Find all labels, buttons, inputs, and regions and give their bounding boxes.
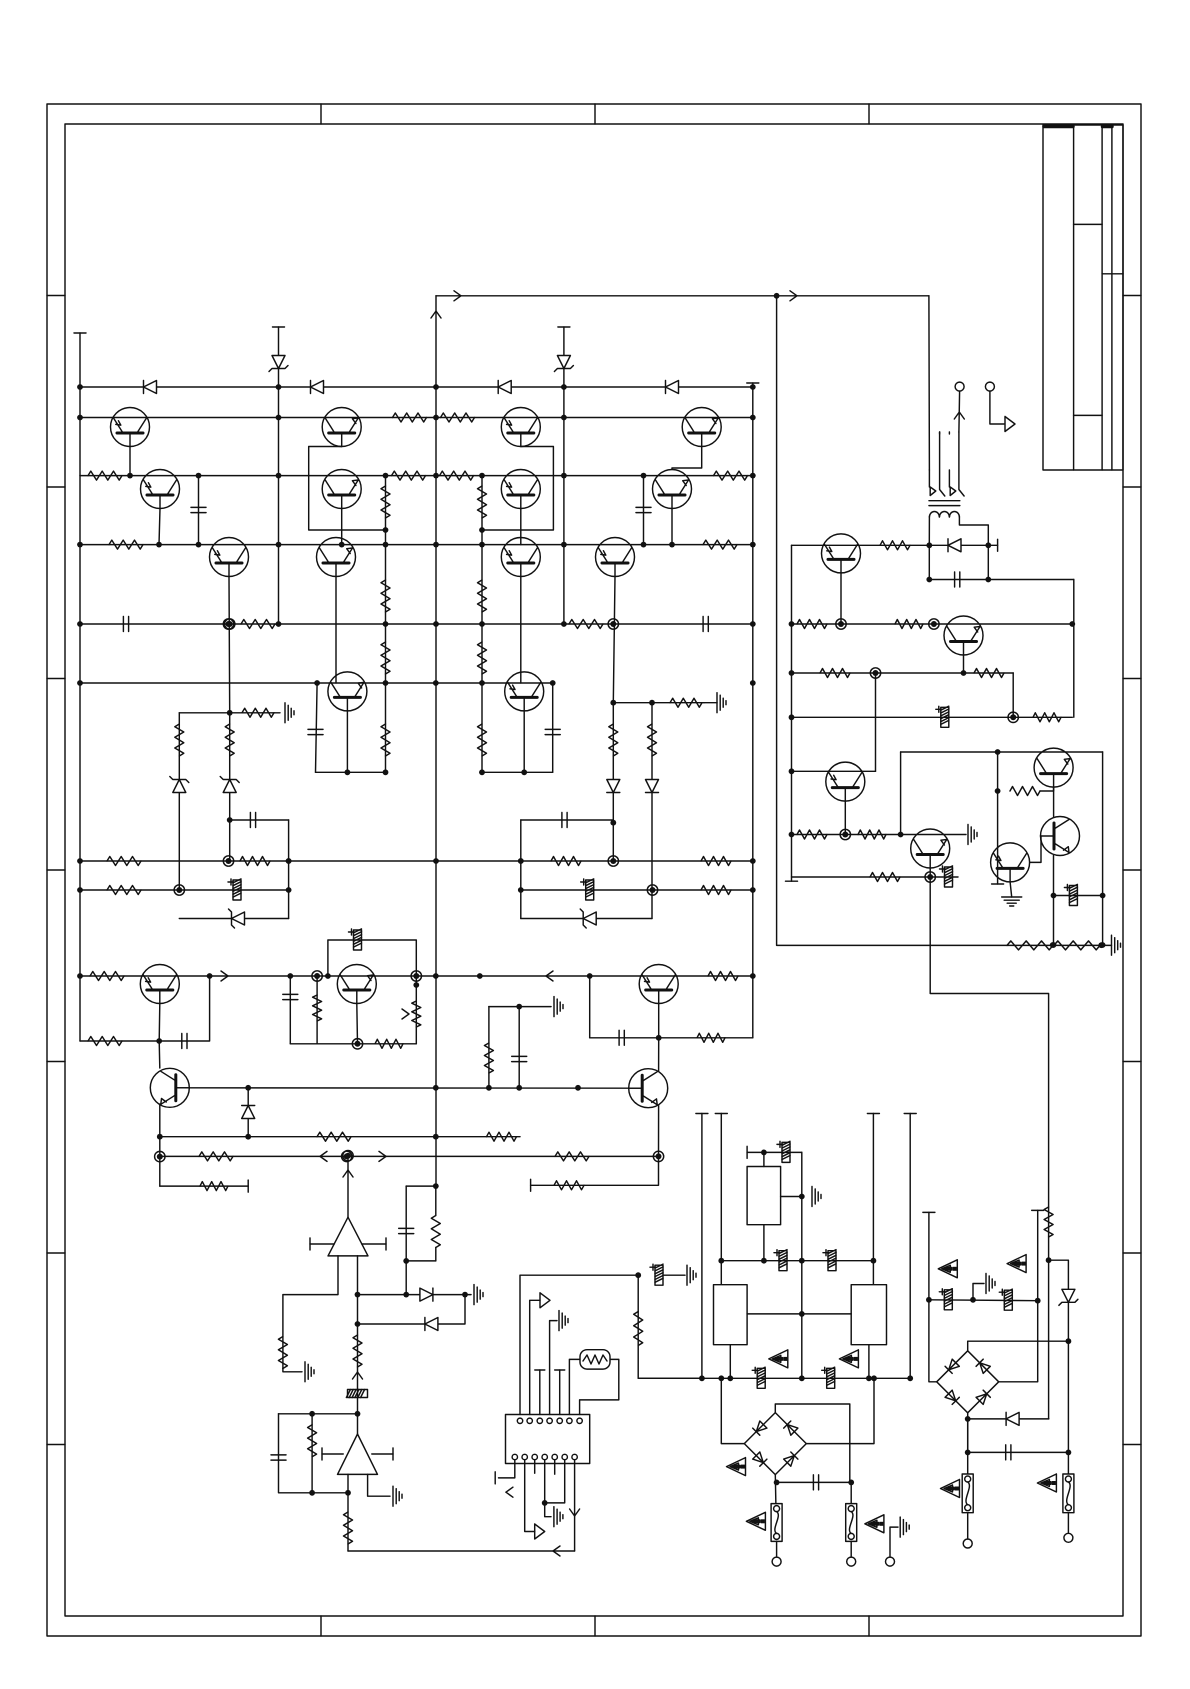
transistor Q25	[991, 843, 1030, 882]
junction	[848, 1480, 854, 1486]
node	[155, 1151, 165, 1161]
fuse F4	[1063, 1474, 1074, 1513]
wire prot rail	[791, 545, 793, 881]
wire Q2 emitter	[159, 509, 160, 545]
wire row 673 prot	[792, 672, 1014, 674]
wire opamp1 outR	[357, 1256, 359, 1324]
wire Q25 base feed	[997, 791, 999, 884]
wire opamp1 in	[347, 1156, 349, 1218]
wire Q19 top	[658, 1038, 660, 1071]
resistor R61	[858, 830, 886, 839]
junction	[750, 473, 756, 479]
junction	[799, 1258, 805, 1264]
resistor R30	[701, 857, 731, 866]
junction	[561, 415, 567, 421]
wire gnd stub R	[704, 702, 717, 704]
diode D4	[666, 381, 679, 394]
zener D7	[229, 909, 245, 928]
border zone tick top	[320, 104, 322, 124]
wire capbranch R	[520, 820, 522, 919]
border zone tick top	[868, 104, 870, 124]
junction	[433, 1085, 439, 1091]
junction	[77, 542, 83, 548]
resistor R49	[431, 1216, 440, 1248]
tbar prot rail end	[786, 880, 798, 882]
capacitor C4	[250, 813, 255, 828]
title block bold top b	[1103, 125, 1113, 129]
IC U3 body	[506, 1415, 590, 1464]
junction	[518, 887, 524, 893]
junction	[383, 473, 389, 479]
wire zrow R	[521, 918, 652, 920]
tbar inL2	[321, 1448, 323, 1460]
wire pin5b	[554, 1460, 556, 1474]
wire chain left	[385, 476, 387, 773]
wire bias R2	[651, 703, 653, 919]
wire Q5 down	[341, 509, 343, 545]
junction	[561, 384, 567, 390]
wire rail stub b	[435, 1248, 437, 1261]
zener mark Z4	[746, 1512, 765, 1530]
arrow opamp1	[343, 1170, 353, 1177]
junction	[774, 1480, 780, 1486]
resistor R24	[225, 724, 234, 756]
junction	[1066, 1450, 1072, 1456]
ground G2	[717, 693, 726, 713]
arrow pin7b	[570, 1509, 580, 1516]
tbar U4	[746, 1146, 748, 1158]
junction	[383, 542, 389, 548]
junction	[866, 1375, 872, 1381]
resistor R15	[381, 642, 390, 674]
border zone tick left	[47, 1061, 65, 1063]
wire gnd row R ext	[652, 702, 704, 704]
wire D16 drop	[987, 545, 989, 579]
wire protect feed	[930, 877, 1048, 1419]
wire row 890 R	[521, 889, 753, 891]
capacitor C12	[512, 1056, 527, 1061]
title block bold top a	[1044, 125, 1073, 129]
transistor Q20	[822, 534, 861, 573]
node	[225, 619, 235, 629]
junction	[750, 542, 756, 548]
resistor R50	[308, 1425, 317, 1457]
junction	[518, 858, 524, 864]
resistor R14	[381, 580, 390, 612]
border zone tick right	[1123, 678, 1141, 680]
transistor Q11	[596, 538, 635, 577]
tbar inR2	[392, 1448, 394, 1460]
resistor R26	[648, 724, 657, 756]
wire pin4b	[544, 1460, 546, 1503]
zener D6	[220, 777, 239, 793]
arrow trimmer	[402, 1009, 409, 1019]
wire row 772 R	[480, 771, 553, 773]
junction	[799, 1375, 805, 1381]
wire cap row BR1	[777, 1481, 852, 1483]
wire gnd row L	[179, 712, 280, 714]
zener mark Z1	[769, 1350, 788, 1368]
wire xfmr left lead	[928, 517, 930, 545]
ecap C8	[349, 929, 362, 950]
node	[925, 872, 935, 882]
wire cap row L	[230, 819, 289, 821]
wire gnd stub d	[465, 1294, 471, 1296]
arrow 1156b	[379, 1151, 386, 1161]
resistor R8	[714, 471, 748, 480]
junction	[345, 769, 351, 775]
transistor Q19	[629, 1069, 668, 1108]
resistor R59	[1033, 713, 1061, 722]
tbar V4	[904, 1113, 916, 1115]
zener D-ZL	[269, 356, 288, 372]
diode D2	[311, 381, 324, 394]
wire row 476	[80, 475, 753, 477]
ecap C31	[1064, 884, 1077, 905]
zener mark Z7	[1007, 1255, 1026, 1273]
node	[608, 856, 618, 866]
wire E res	[997, 752, 999, 791]
wire capV R	[552, 683, 554, 772]
ground G3	[554, 997, 563, 1017]
junction	[1069, 621, 1075, 627]
tbar prot	[997, 539, 999, 551]
resistor R48	[353, 1335, 362, 1367]
wire cap row R	[521, 819, 614, 821]
resistor R36 trimmer	[412, 1001, 421, 1027]
wire row 1261	[721, 1260, 873, 1262]
wire zener branch	[1049, 1260, 1069, 1341]
wire row 624	[80, 623, 753, 625]
resistor R19	[478, 642, 487, 674]
wire left rail	[79, 333, 81, 1041]
wire BR1 bottom	[775, 1475, 776, 1542]
capacitor C2	[191, 507, 206, 512]
wire BR1 left	[721, 1378, 744, 1443]
wire fb chain	[357, 1324, 359, 1414]
transistor Q12	[682, 408, 721, 447]
wire switch lead B	[939, 432, 941, 434]
wire U4 topline	[747, 1151, 802, 1153]
wire pin5	[559, 1370, 561, 1415]
wire rc bottom	[406, 1260, 436, 1262]
resistor R62	[870, 873, 900, 882]
ecap C6	[228, 879, 241, 900]
junction	[699, 1375, 705, 1381]
capacitor C22	[813, 1475, 818, 1490]
junction	[433, 415, 439, 421]
junction	[207, 973, 213, 979]
wire AC2 lead	[990, 391, 1004, 424]
resistor R38	[88, 1037, 122, 1046]
wire v312	[311, 1414, 313, 1493]
wire cap row prot	[929, 579, 1074, 581]
border zone tick left	[47, 1252, 65, 1254]
wire row 772 L	[316, 771, 386, 773]
resistor R37	[375, 1039, 403, 1048]
tbar inR	[385, 1238, 387, 1250]
junction	[641, 542, 647, 548]
junction	[479, 542, 485, 548]
wire Q13 down	[671, 509, 673, 545]
junction	[649, 700, 655, 706]
wire Q10 emitter	[520, 577, 522, 684]
title block divider h3	[1102, 273, 1123, 275]
wire cap stub BR2	[967, 1419, 969, 1453]
resistor R9	[109, 540, 143, 549]
wire U4 gnd	[781, 1196, 802, 1198]
resistor R11	[241, 620, 275, 629]
resistor R54	[880, 541, 910, 550]
junction	[286, 858, 292, 864]
junction	[799, 1194, 805, 1200]
junction	[750, 415, 756, 421]
wire stub 1185R	[531, 1156, 659, 1185]
junction	[355, 1292, 361, 1298]
title block divider h1	[1074, 223, 1103, 225]
wire stub 1186L	[160, 1185, 248, 1187]
lamp filament	[583, 1355, 607, 1364]
resistor R25	[609, 724, 618, 756]
junction	[77, 887, 83, 893]
wire ecap gnd	[663, 1274, 685, 1276]
wire v1068 down	[1067, 1341, 1069, 1474]
transistor Q3	[210, 538, 249, 577]
tbar q25	[992, 883, 1004, 885]
junction	[479, 473, 485, 479]
junction	[345, 1490, 351, 1496]
node	[836, 619, 846, 629]
transformer T-core	[929, 500, 960, 502]
border zone tick left	[47, 1444, 65, 1446]
junction	[750, 384, 756, 390]
wire row 1300	[929, 1299, 1038, 1302]
junction	[433, 384, 439, 390]
junction	[433, 1183, 439, 1189]
wire opamp2 gnd	[368, 1474, 390, 1496]
junction	[641, 473, 647, 479]
title block divider col2	[1101, 125, 1103, 470]
wire Q6 emitter	[335, 577, 337, 684]
wire cap row ps	[968, 1451, 1069, 1453]
junction	[383, 621, 389, 627]
arrow AC1	[954, 412, 964, 419]
ground snub	[1112, 935, 1121, 955]
wire Q25-Q26 link	[1030, 836, 1041, 862]
wire corner 673	[1012, 673, 1014, 717]
junction	[383, 527, 389, 533]
junction	[196, 473, 202, 479]
transistor Q13	[653, 470, 692, 509]
terminal bar zener R	[558, 326, 570, 328]
transistor Q1	[111, 408, 150, 447]
wire right rail	[752, 383, 754, 1038]
wire v1073	[1073, 580, 1075, 718]
ground G6	[393, 1486, 402, 1506]
sheet border inner	[65, 124, 1123, 1616]
junction	[314, 680, 320, 686]
wire Q12-Q13 link	[672, 447, 702, 470]
arrow right top rail 2	[790, 291, 797, 301]
resistor R53	[1044, 1207, 1053, 1237]
wire row 717 prot	[792, 716, 1073, 718]
resistor R42	[487, 1132, 517, 1141]
zener mark Z6	[938, 1260, 957, 1278]
junction	[561, 542, 567, 548]
wire zrow L	[179, 918, 288, 920]
tbar pin5	[555, 1369, 565, 1371]
wire row 1087	[177, 1087, 642, 1089]
wire BR1 right	[806, 1378, 874, 1443]
diode D11	[242, 1106, 255, 1119]
junction	[718, 1375, 724, 1381]
fuse F2	[846, 1504, 857, 1542]
resistor R20	[478, 724, 487, 756]
zener D10	[580, 909, 596, 928]
wire U5 bottom	[729, 1345, 731, 1379]
ecap C30	[940, 866, 953, 887]
border zone tick bottom	[868, 1616, 870, 1636]
junction	[1051, 942, 1057, 948]
transistor Q22	[826, 762, 865, 801]
zener mark Z2	[839, 1350, 858, 1368]
diode D1	[144, 381, 157, 394]
border zone tick right	[1123, 1444, 1141, 1446]
ground G12	[986, 1274, 995, 1294]
transistor Q4	[322, 408, 361, 447]
border zone tick right	[1123, 295, 1141, 297]
regulator U5 body	[714, 1285, 748, 1345]
transformer T1 winding	[929, 512, 959, 518]
junction	[77, 973, 83, 979]
wire row 752 prot	[901, 751, 1103, 753]
regulator U4 body	[747, 1167, 781, 1225]
terminal bar left rail	[74, 332, 86, 334]
ground G14	[1002, 897, 1022, 906]
junction	[575, 1085, 581, 1091]
junction	[286, 887, 292, 893]
wire pin2	[530, 1300, 540, 1414]
junction	[309, 1490, 315, 1496]
junction	[516, 1085, 522, 1091]
junction	[355, 1411, 361, 1417]
wire row 1041	[80, 976, 210, 1041]
wire gnd row R	[613, 702, 652, 704]
wire row 881 prot	[792, 876, 959, 878]
junction	[970, 1297, 976, 1303]
junction	[542, 1500, 548, 1506]
junction	[479, 527, 485, 533]
junction	[635, 1272, 641, 1278]
transistor Q23	[911, 829, 950, 868]
wire ecap row prot	[1054, 895, 1103, 897]
wire Q8-Q9 link	[482, 447, 553, 531]
capacitor C10	[182, 1034, 187, 1049]
junction	[196, 542, 202, 548]
transistor Q15	[140, 965, 179, 1004]
resistor R27	[107, 857, 141, 866]
wire opamp1 inR	[362, 1243, 386, 1245]
wire zen 1100	[247, 1088, 249, 1137]
resistor R35	[313, 995, 322, 1021]
resistor R32	[701, 886, 731, 895]
wire switch lead C	[948, 432, 950, 434]
transistor Q6	[317, 538, 356, 577]
ground G13	[968, 825, 977, 845]
arrow fb	[353, 1372, 363, 1379]
node	[223, 856, 233, 866]
title block outline	[1043, 125, 1123, 470]
transistor Q8	[501, 408, 540, 447]
border zone tick top	[594, 104, 596, 124]
junction	[871, 1258, 877, 1264]
wire row 545 prot	[792, 544, 998, 546]
capacitor C15	[271, 1455, 286, 1460]
zener mark Z8	[941, 1480, 960, 1498]
wire V1	[701, 1114, 703, 1379]
junction	[77, 621, 83, 627]
ground G10	[812, 1187, 821, 1207]
title block divider col3	[1111, 125, 1113, 470]
resistor R18	[478, 580, 487, 612]
wire bias R1	[612, 703, 614, 823]
junction	[156, 1038, 162, 1044]
wire pin6b	[545, 1460, 565, 1503]
junction	[718, 1258, 724, 1264]
wire pin7	[580, 1359, 619, 1414]
wire Q18 bottom	[159, 1104, 161, 1186]
wire row 683	[80, 682, 553, 684]
junction	[561, 473, 567, 479]
wire opamp1 outL	[283, 1256, 338, 1369]
node	[840, 829, 850, 839]
junction	[761, 1150, 767, 1156]
buffer A1	[540, 1293, 550, 1308]
resistor R12	[569, 620, 603, 629]
arrow right top rail	[454, 291, 461, 301]
wire Q15 down	[158, 1004, 161, 1042]
resistor R6	[392, 471, 426, 480]
wire Q7 bottom	[346, 711, 348, 772]
wire F1 out	[776, 1541, 778, 1557]
resistor R39	[697, 1033, 725, 1042]
wire Q25 gnd	[1010, 882, 1012, 897]
wire rc capbranch	[405, 1186, 407, 1295]
border zone tick right	[1123, 1252, 1141, 1254]
wire AC1 lead	[958, 391, 961, 432]
wire center rail	[435, 296, 437, 1186]
wire Q22 bottom	[844, 801, 846, 834]
capacitor C-R1	[703, 617, 708, 632]
transistor Q2	[141, 470, 180, 509]
zener D-ZR	[554, 356, 573, 372]
wire row 1137	[160, 1136, 520, 1138]
junction	[789, 768, 795, 774]
wire v900	[900, 752, 902, 835]
terminal bar right rail	[747, 382, 759, 384]
tbar pin1b	[494, 1472, 496, 1484]
wire v519	[518, 1007, 520, 1088]
border zone tick left	[47, 678, 65, 680]
border zone tick bottom	[594, 1616, 596, 1636]
wire bias L2	[229, 713, 231, 861]
wire v317	[316, 976, 318, 1044]
wire V2	[720, 1114, 722, 1285]
resistor R60	[797, 830, 827, 839]
ecap C19	[823, 1250, 836, 1271]
terminal T4	[963, 1539, 972, 1548]
arrow row976 r	[221, 971, 228, 981]
